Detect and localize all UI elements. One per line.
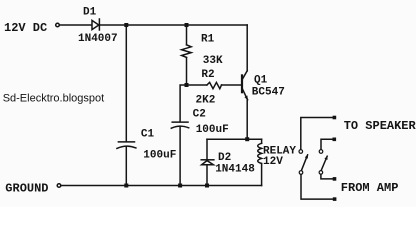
svg-text:1N4148: 1N4148 — [215, 164, 255, 176]
wire — [321, 139, 333, 149]
wire — [246, 25, 248, 71]
switch blade — [321, 156, 327, 171]
diode D1 — [92, 19, 99, 30]
svg-text:100uF: 100uF — [196, 124, 229, 136]
wire — [207, 138, 262, 140]
node — [205, 184, 209, 188]
node — [185, 83, 189, 87]
wire — [60, 24, 92, 26]
svg-text:TO SPEAKER: TO SPEAKER — [344, 119, 416, 133]
svg-text:33K: 33K — [203, 55, 223, 67]
svg-text:Q1: Q1 — [254, 75, 268, 87]
node — [124, 184, 128, 188]
wire — [206, 139, 208, 159]
svg-text:FROM AMP: FROM AMP — [341, 181, 399, 195]
wire — [179, 127, 181, 186]
svg-text:1N4007: 1N4007 — [78, 33, 118, 45]
node — [185, 23, 189, 27]
svg-text:BC547: BC547 — [252, 87, 285, 99]
wire — [125, 25, 127, 141]
capacitor C1 — [117, 142, 136, 149]
wire — [301, 174, 333, 199]
node — [124, 23, 128, 27]
wire — [206, 165, 208, 186]
svg-text:100uF: 100uF — [143, 149, 176, 161]
resistor R2 — [207, 82, 222, 88]
wire — [186, 25, 188, 45]
svg-text:C1: C1 — [141, 129, 155, 141]
wire — [301, 118, 334, 150]
terminal 12V DC — [56, 23, 60, 27]
wire — [61, 185, 262, 187]
wire — [99, 24, 247, 26]
diode D2 — [201, 160, 214, 165]
node — [333, 197, 337, 201]
wire — [187, 84, 207, 86]
svg-text:2K2: 2K2 — [196, 95, 216, 107]
node — [333, 138, 337, 142]
resistor R1 — [182, 45, 192, 58]
svg-text:R2: R2 — [201, 69, 214, 81]
wire — [222, 84, 242, 86]
svg-text:C2: C2 — [193, 108, 206, 120]
relay coil K1 — [258, 139, 262, 185]
wire — [125, 146, 127, 185]
transistor Q1 — [242, 71, 248, 101]
contact — [319, 150, 323, 154]
svg-text:12V: 12V — [263, 156, 283, 168]
svg-text:Sd-Elecktro.blogspot: Sd-Elecktro.blogspot — [3, 92, 105, 104]
node — [245, 137, 249, 141]
terminal GROUND — [57, 184, 61, 188]
node — [178, 184, 182, 188]
svg-text:R1: R1 — [201, 33, 215, 45]
wire — [180, 85, 186, 121]
switch blade — [301, 154, 308, 170]
contact — [299, 150, 303, 154]
svg-text:GROUND: GROUND — [5, 181, 48, 195]
capacitor C2 — [171, 122, 188, 128]
svg-text:D1: D1 — [83, 7, 97, 19]
svg-text:12V DC: 12V DC — [4, 21, 47, 35]
svg-text:D2: D2 — [218, 152, 231, 164]
wire — [321, 174, 333, 179]
wire — [246, 100, 248, 139]
contact — [299, 171, 303, 175]
node — [333, 116, 337, 120]
contact — [319, 171, 323, 175]
wire — [186, 57, 188, 85]
node — [333, 177, 337, 181]
